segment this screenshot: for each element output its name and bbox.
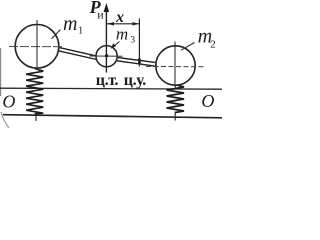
svg-text:ц.т.: ц.т. [96,72,119,89]
svg-text:m: m [116,24,128,43]
svg-text:1: 1 [78,25,83,36]
svg-text:ц.у.: ц.у. [124,72,146,89]
svg-text:m: m [63,13,77,35]
svg-text:2: 2 [210,38,216,50]
svg-text:O: O [2,91,15,111]
svg-text:3: 3 [130,35,135,45]
svg-text:и: и [97,8,104,22]
svg-text:O: O [201,91,214,111]
